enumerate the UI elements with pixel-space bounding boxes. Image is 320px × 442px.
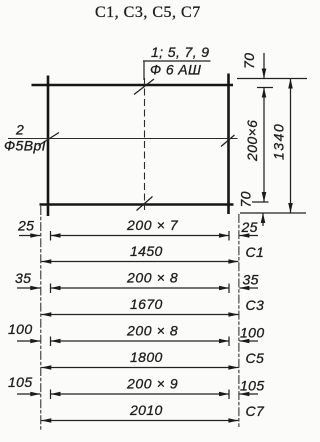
svg-text:25: 25 xyxy=(241,219,258,235)
row3 tick right xyxy=(228,284,230,294)
svg-text:200×6: 200×6 xyxy=(244,120,260,162)
row7 right outside arrow xyxy=(239,393,258,395)
right side: bottom wire level tick xyxy=(252,201,269,203)
bottom dims: left extension line xyxy=(40,206,42,431)
svg-text:70: 70 xyxy=(238,191,254,207)
tick at right wire / middle horizontal junction xyxy=(221,135,235,147)
svg-text:35: 35 xyxy=(15,270,31,286)
mesh left wire xyxy=(47,76,50,217)
svg-text:1; 5, 7, 9: 1; 5, 7, 9 xyxy=(151,44,209,60)
svg-text:2: 2 xyxy=(15,122,24,138)
row3 dim line 200x8 xyxy=(51,287,230,289)
svg-text:105: 105 xyxy=(240,378,265,394)
svg-text:105: 105 xyxy=(8,374,33,390)
row6 dim line 1800 xyxy=(41,367,238,369)
right side: top extension line xyxy=(237,78,307,80)
row5 dim line 200x8 xyxy=(51,340,230,342)
svg-text:2010: 2010 xyxy=(129,402,163,418)
svg-text:200 × 8: 200 × 8 xyxy=(126,270,178,286)
dimension 70 top outside arrow xyxy=(263,53,265,79)
svg-text:С3: С3 xyxy=(246,297,265,313)
svg-text:100: 100 xyxy=(240,325,265,341)
dimension 70 bottom outside arrow xyxy=(262,213,264,226)
right side: bottom extension line xyxy=(240,212,306,214)
row8 dim line 2010 xyxy=(41,420,238,422)
row1 tick right xyxy=(228,231,230,241)
row1 right outside arrow xyxy=(239,235,258,237)
mesh middle vertical wire (axis, dashed) xyxy=(144,78,146,210)
svg-text:1670: 1670 xyxy=(130,296,163,312)
row3 right outside arrow xyxy=(239,287,258,289)
mesh top wire xyxy=(32,84,234,86)
svg-text:1800: 1800 xyxy=(130,349,163,365)
row5 tick right xyxy=(228,337,230,347)
row2 dim line 1450 xyxy=(41,261,238,263)
row4 dim line 1670 xyxy=(41,314,238,316)
svg-text:Ф5ВрI: Ф5ВрI xyxy=(4,138,46,154)
bottom dims: right extension line xyxy=(238,214,240,427)
row3 tick left xyxy=(50,284,52,294)
row7 left outside arrow xyxy=(17,393,40,395)
right side: top wire level tick xyxy=(257,87,273,89)
mesh middle horizontal wire (also label leader bar) xyxy=(8,138,238,140)
tick at left wire / middle horizontal junction xyxy=(39,133,60,146)
svg-text:С5: С5 xyxy=(246,350,265,366)
row1 dim line 200x7 xyxy=(51,235,230,237)
row5 tick left xyxy=(50,337,52,347)
dimension 200x6 vertical line xyxy=(263,88,265,203)
tick at bottom wire / middle vertical junction xyxy=(137,197,153,211)
row7 tick right xyxy=(228,390,230,400)
svg-text:100: 100 xyxy=(8,321,33,337)
row3 left outside arrow xyxy=(17,287,40,289)
row5 right outside arrow xyxy=(239,340,258,342)
svg-text:С7: С7 xyxy=(246,403,266,419)
svg-text:70: 70 xyxy=(241,53,257,69)
svg-text:200 × 9: 200 × 9 xyxy=(126,376,178,392)
svg-text:С1, С3, С5, С7: С1, С3, С5, С7 xyxy=(95,4,201,21)
row5 left outside arrow xyxy=(17,340,40,342)
svg-text:35: 35 xyxy=(243,272,259,288)
row1 tick left xyxy=(50,231,52,241)
row7 dim line 200x9 xyxy=(51,393,230,395)
svg-text:1340: 1340 xyxy=(271,123,287,160)
tick at top wire / middle vertical junction xyxy=(134,79,154,95)
svg-text:200 × 7: 200 × 7 xyxy=(126,217,179,233)
svg-text:С1: С1 xyxy=(246,244,265,260)
row1 left outside arrow xyxy=(19,235,40,237)
row7 tick left xyxy=(50,390,52,400)
mesh right wire xyxy=(227,74,230,215)
svg-text:Ф 6 АШ: Ф 6 АШ xyxy=(150,62,201,78)
mesh bottom wire xyxy=(40,203,234,205)
svg-text:25: 25 xyxy=(17,218,34,234)
dimension 1340 vertical line xyxy=(290,79,292,214)
svg-text:200 × 8: 200 × 8 xyxy=(126,323,178,339)
svg-text:1450: 1450 xyxy=(130,243,163,259)
